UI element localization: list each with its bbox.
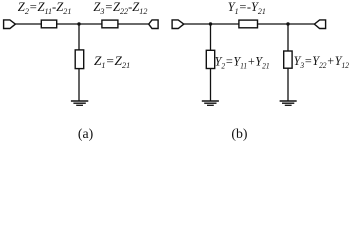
ground (b) right bbox=[280, 101, 297, 105]
node junction dot right (b) bbox=[286, 22, 289, 25]
resistor Z2 bbox=[41, 20, 56, 28]
wire vertical shunt (a) bbox=[78, 24, 80, 101]
ground (a) bbox=[71, 101, 88, 105]
resistor Z1 bbox=[75, 50, 84, 69]
node junction dot left (b) bbox=[209, 22, 212, 25]
wire vertical shunt right (b) bbox=[287, 24, 289, 101]
port terminal left (a) bbox=[4, 20, 16, 29]
wire main horizontal (b) bbox=[184, 23, 315, 25]
node junction dot (a) bbox=[77, 22, 80, 25]
resistor Y1 bbox=[239, 20, 258, 28]
port terminal right (b) bbox=[314, 20, 325, 29]
wire vertical shunt left (b) bbox=[210, 24, 212, 101]
svg-text:(a): (a) bbox=[78, 126, 93, 142]
port terminal right (a) bbox=[149, 20, 158, 29]
ground (b) left bbox=[202, 101, 219, 105]
resistor Y3 bbox=[284, 51, 292, 68]
wire main horizontal (a) bbox=[15, 23, 149, 25]
svg-text:(b): (b) bbox=[231, 126, 247, 142]
resistor Y2 bbox=[206, 50, 214, 68]
resistor Z3 bbox=[102, 20, 118, 28]
port terminal left (b) bbox=[172, 20, 184, 29]
